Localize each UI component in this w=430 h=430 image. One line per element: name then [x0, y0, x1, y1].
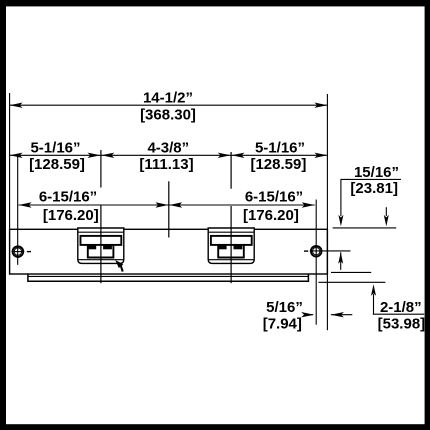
svg-text:4-3/8”: 4-3/8” — [147, 140, 189, 157]
svg-text:[128.59]: [128.59] — [250, 156, 306, 173]
right screw hole — [304, 200, 351, 325]
dimension 15/16 with leader — [338, 164, 401, 270]
svg-text:[368.30]: [368.30] — [140, 106, 196, 123]
dimension 2-1/8 arrows — [371, 207, 425, 332]
backbox lip below faceplate — [28, 274, 309, 281]
svg-text:6-15/16”: 6-15/16” — [245, 189, 303, 206]
plate center extension line — [168, 181, 170, 237]
svg-text:[23.81]: [23.81] — [350, 180, 398, 197]
svg-text:5-1/16”: 5-1/16” — [30, 140, 80, 157]
svg-text:6-15/16”: 6-15/16” — [39, 189, 97, 206]
latch 2 centerline — [230, 152, 232, 283]
svg-text:[111.13]: [111.13] — [139, 156, 193, 173]
svg-text:14-1/2”: 14-1/2” — [143, 90, 193, 107]
dimension row 2: 5-1/16 / 4-3/8 / 5-1/16 — [10, 140, 328, 173]
dimension 5/16 at bottom — [263, 299, 353, 333]
svg-text:[176.20]: [176.20] — [43, 207, 99, 224]
svg-text:5-1/16”: 5-1/16” — [255, 140, 305, 157]
dimension row 3: 6-15/16 left and right — [19, 189, 315, 224]
svg-text:[7.94]: [7.94] — [263, 315, 302, 332]
right edge extension line — [326, 94, 328, 330]
latch keeper 2 (right) — [208, 228, 254, 263]
cursor arrowhead pointing at latch 1 — [115, 260, 124, 272]
lip bottom extension line (right) — [318, 281, 385, 283]
svg-text:[53.98]: [53.98] — [378, 315, 426, 332]
svg-text:5/16”: 5/16” — [266, 299, 303, 316]
latch keeper 1 (left) — [78, 228, 124, 263]
svg-text:[176.20]: [176.20] — [243, 207, 299, 224]
dimension 14-1/2 overall width — [10, 90, 328, 124]
svg-text:[128.59]: [128.59] — [29, 156, 85, 173]
faceplate body — [10, 229, 328, 274]
left edge extension line — [9, 93, 11, 229]
svg-text:15/16”: 15/16” — [354, 164, 399, 181]
plate top extension line (right) — [333, 227, 397, 229]
left screw hole — [12, 156, 32, 265]
latch 1 centerline — [100, 150, 102, 283]
svg-text:2-1/8”: 2-1/8” — [380, 299, 422, 316]
plate bottom extension line (right) — [331, 271, 371, 273]
